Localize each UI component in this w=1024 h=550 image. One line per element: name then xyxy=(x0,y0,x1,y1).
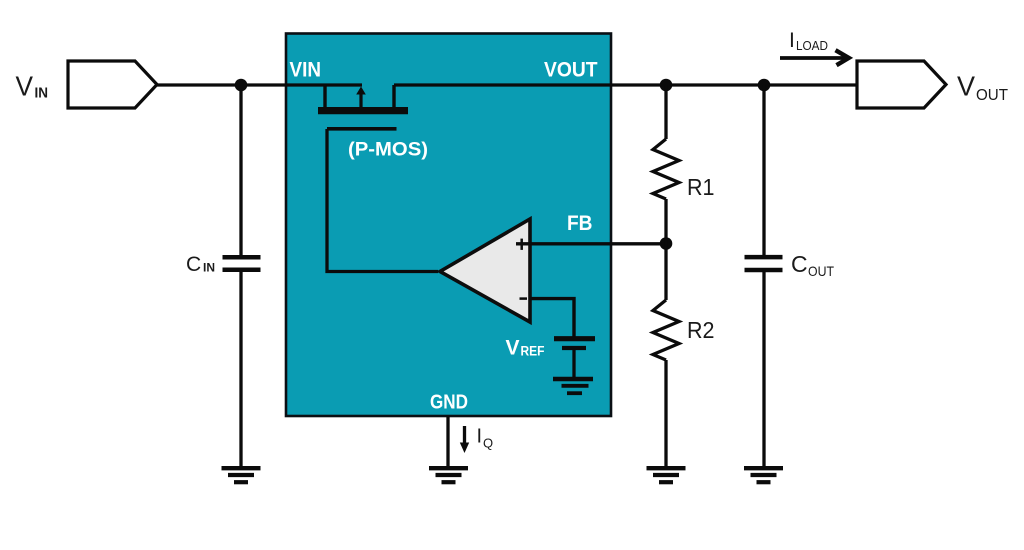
svg-text:R2: R2 xyxy=(687,317,715,343)
label CIN xyxy=(186,253,215,276)
label COUT xyxy=(791,251,834,279)
svg-text:I: I xyxy=(477,426,483,448)
ground (VREF) xyxy=(553,379,593,393)
svg-text:LOAD: LOAD xyxy=(796,38,828,53)
wire (gate to error amp output) xyxy=(327,129,438,272)
svg-text:(P-MOS): (P-MOS) xyxy=(348,139,428,161)
battery VREF xyxy=(554,339,595,377)
label VOUT external xyxy=(957,71,1008,105)
svg-text:GND: GND xyxy=(430,392,468,414)
IC U1 LDO regulator body xyxy=(286,34,611,417)
arrow IQ xyxy=(460,426,469,453)
label VIN external xyxy=(16,71,49,102)
label IQ xyxy=(477,426,494,451)
resistor R1 xyxy=(653,85,679,199)
wire CIN top lead xyxy=(239,85,242,256)
svg-text:Q: Q xyxy=(483,436,493,451)
node VOUT / R1 junction xyxy=(660,79,673,92)
svg-text:VIN: VIN xyxy=(290,59,322,82)
wire CIN bottom lead xyxy=(239,272,242,468)
connector VOUT pad xyxy=(857,61,946,108)
ground (GND pin) xyxy=(429,468,468,482)
svg-text:OUT: OUT xyxy=(976,87,1008,104)
connector VIN pad xyxy=(68,61,157,108)
svg-text:V: V xyxy=(506,337,520,360)
capacitor COUT xyxy=(745,85,783,466)
transistor Q1 (P-MOS pass element) xyxy=(318,85,408,129)
wire GND pin xyxy=(446,416,449,466)
svg-text:V: V xyxy=(16,71,34,102)
svg-text:OUT: OUT xyxy=(808,263,834,279)
svg-text:IN: IN xyxy=(203,261,215,275)
wire (inverting input to VREF) xyxy=(530,299,574,337)
ground (CIN) xyxy=(222,468,261,482)
arrow ILOAD xyxy=(780,50,849,65)
op-amp A1 (error amplifier) xyxy=(440,219,530,322)
svg-text:REF: REF xyxy=(521,344,545,359)
capacitor CIN xyxy=(223,257,261,269)
wire FB net xyxy=(516,242,666,245)
wire VIN net (top left) xyxy=(157,83,362,86)
node FB xyxy=(660,237,673,250)
svg-text:R1: R1 xyxy=(687,174,715,200)
wire (R1 to R2 through FB node) xyxy=(664,199,667,300)
svg-text:C: C xyxy=(791,251,808,277)
label ILOAD xyxy=(789,29,828,53)
svg-text:VOUT: VOUT xyxy=(544,59,598,82)
label VREF xyxy=(506,337,545,360)
ground (COUT) xyxy=(744,468,783,482)
svg-text:V: V xyxy=(957,71,975,102)
svg-text:IN: IN xyxy=(35,85,49,102)
node VIN / CIN junction xyxy=(235,79,248,92)
svg-text:FB: FB xyxy=(567,212,593,235)
svg-text:C: C xyxy=(186,253,201,276)
resistor R2 xyxy=(653,300,679,466)
node VOUT / COUT junction xyxy=(758,79,771,92)
wire VOUT net (top right) xyxy=(394,83,858,86)
ground (R2) xyxy=(647,468,686,482)
svg-text:I: I xyxy=(789,29,795,52)
